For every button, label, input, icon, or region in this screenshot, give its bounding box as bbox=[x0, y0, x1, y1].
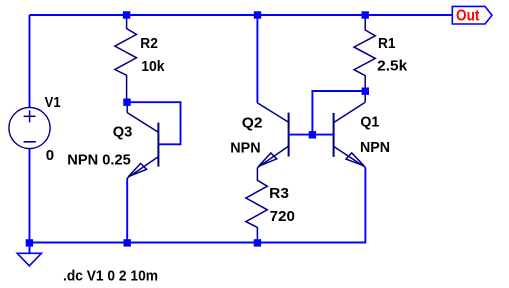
svg-text:Q1: Q1 bbox=[360, 113, 379, 130]
wire Q1 emitter to bottom rail bbox=[364, 167, 366, 242]
svg-text:R1: R1 bbox=[378, 35, 396, 52]
wire top rail bbox=[30, 14, 453, 16]
svg-text:2.5k: 2.5k bbox=[377, 57, 408, 74]
junction node R1 bottom / Q1 collector bbox=[362, 88, 369, 95]
wire Q2 collector from top rail bbox=[256, 15, 258, 103]
junction node top rail / R2 bbox=[123, 11, 130, 18]
wire ground stub bbox=[29, 243, 31, 254]
node Out flag bbox=[452, 6, 492, 24]
junction node Q2/Q1 base bbox=[309, 131, 316, 138]
resistor R2 bbox=[115, 18, 137, 99]
svg-text:NPN: NPN bbox=[360, 139, 390, 156]
svg-text:720: 720 bbox=[270, 208, 295, 225]
wire R2 bottom node to Q3 base loop bbox=[127, 102, 181, 144]
wire left vertical (top rail to V1 plus terminal) bbox=[29, 15, 31, 108]
transistor Q1 bbox=[334, 95, 366, 168]
wire Q3 emitter to bottom rail bbox=[126, 178, 128, 243]
junction node bottom rail / R3 bbox=[254, 239, 261, 246]
wire Q2 base to Q1 base bbox=[289, 134, 334, 136]
transistor Q3 (diode connected, mirrored) bbox=[127, 106, 158, 179]
junction node R2 bottom / Q3 bbox=[123, 99, 130, 106]
wire base node up and right to R1 bottom node bbox=[312, 91, 365, 135]
transistor Q2 (mirrored) bbox=[257, 103, 288, 168]
resistor R3 bbox=[246, 168, 267, 242]
svg-text:Q2: Q2 bbox=[242, 115, 263, 132]
wire bottom rail bbox=[30, 242, 367, 244]
wire V1 minus terminal down to bottom rail bbox=[29, 149, 31, 243]
ground symbol bbox=[17, 253, 41, 265]
svg-text:Q3: Q3 bbox=[113, 123, 133, 140]
junction node ground / V1 bbox=[26, 239, 33, 246]
svg-text:.dc V1 0 2 10m: .dc V1 0 2 10m bbox=[63, 268, 158, 285]
svg-text:NPN: NPN bbox=[230, 140, 260, 157]
junction node top rail / R1 bbox=[362, 11, 369, 18]
junction node top rail / Q2 collector bbox=[254, 11, 261, 18]
svg-text:0: 0 bbox=[46, 147, 54, 164]
voltage source V1 bbox=[9, 107, 50, 148]
svg-text:R2: R2 bbox=[140, 35, 158, 52]
svg-text:10k: 10k bbox=[141, 58, 165, 75]
svg-text:R3: R3 bbox=[269, 185, 289, 202]
svg-text:V1: V1 bbox=[45, 94, 61, 111]
junction node bottom rail / Q3 emitter bbox=[124, 239, 131, 246]
svg-text:Out: Out bbox=[456, 8, 480, 25]
svg-text:NPN 0.25: NPN 0.25 bbox=[67, 152, 131, 169]
resistor R1 bbox=[354, 19, 375, 89]
